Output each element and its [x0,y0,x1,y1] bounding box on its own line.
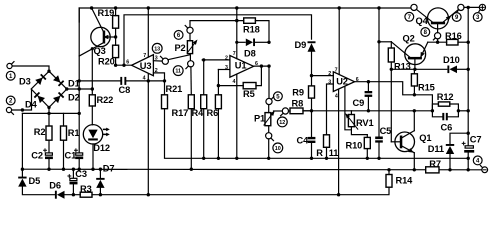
svg-text:2: 2 [225,55,228,61]
svg-text:Q3: Q3 [94,46,106,56]
capacitor C2 [31,149,53,171]
resistor R5 [218,64,263,99]
capacitor C4 [297,111,316,160]
diode D6 [49,181,64,199]
wire U1 output [254,64,271,67]
wire bridge diamond [31,70,68,110]
svg-text:C6: C6 [441,122,453,132]
svg-text:P1: P1 [254,113,265,123]
svg-text:C1: C1 [65,150,77,160]
resistor R13 [388,42,410,142]
wire U2 output [355,80,417,97]
wire terminal2 to bridge left [12,89,32,112]
node terminal 11 [173,55,193,76]
op-amp U3 [126,53,158,81]
trimmer RV1 [344,111,374,135]
diode D5 [18,168,40,187]
svg-text:2: 2 [328,71,331,77]
capacitor C1 [65,149,84,161]
wire U1 minus input [218,69,230,71]
capacitor C7 [462,134,481,152]
svg-text:R5: R5 [243,89,255,99]
svg-text:D12: D12 [93,143,110,153]
svg-text:R12: R12 [437,92,454,102]
wire emitter node row [391,68,447,70]
svg-text:R20: R20 [98,57,115,67]
wire Q1 collector up to node row [413,111,415,131]
resistor R12 [432,92,458,111]
svg-text:Q4: Q4 [416,16,429,26]
capacitor C6 [432,109,460,132]
svg-text:R6: R6 [207,108,219,118]
svg-text:D3: D3 [19,76,31,86]
diode D7 [96,164,114,197]
wire terminal1 to bridge top [12,66,49,71]
resistor R8 [289,98,313,113]
wire Q2 emitter to R16 [428,41,447,44]
resistor R22 [89,47,113,125]
svg-text:U2: U2 [336,76,348,86]
node terminal 9 [452,4,464,21]
node terminal 7 [405,4,417,21]
wire R12 right node to bus [458,110,468,112]
diode D10 [443,55,468,73]
svg-text:C7: C7 [470,134,482,144]
resistor R14 [386,168,413,187]
svg-text:R: R [316,148,323,158]
wire bottom rail [22,113,389,194]
svg-text:RV1: RV1 [356,118,373,128]
svg-text:Q2: Q2 [403,33,415,43]
wire right vertical bus [467,7,470,171]
wire U2 pin4 down to bottom rail [337,89,340,196]
resistor R7 [426,159,441,173]
wire terminal9 to plus output [464,6,479,9]
wire rail A top [79,8,411,22]
svg-text:R9: R9 [292,87,304,97]
transistor Q1 [391,131,431,155]
terminal 2 [6,96,15,114]
wire U2 V+ supply drop [338,6,341,74]
wire U1 plus input [202,59,230,61]
resistor R20 [98,45,119,67]
svg-text:R2: R2 [34,127,46,137]
wire supply drop from rail A to U3 pin7 [147,6,150,82]
svg-text:13: 13 [154,46,160,52]
svg-text:7: 7 [233,51,236,57]
wire Q2 base feed [379,41,391,43]
diode D9 [295,40,316,77]
op-amp U2 [328,67,359,99]
svg-text:Q1: Q1 [419,133,431,143]
svg-text:R1: R1 [68,128,80,138]
LED D12 [83,125,110,171]
potentiometer P2 [175,38,200,53]
resistor R2 [34,126,52,153]
svg-text:C2: C2 [31,150,43,160]
diode D2 [53,92,64,103]
node terminal 6 [174,26,193,41]
svg-text:4: 4 [233,79,236,85]
wire U2 pin1 bracket to RV1 wiper [345,86,352,130]
diode D8 [237,39,271,59]
svg-text:7: 7 [143,53,146,59]
capacitor C5 [375,6,391,160]
svg-text:P2: P2 [175,43,186,53]
diode D3 [35,74,46,85]
wire left vertical from rail A down through C1 to ground rail 2 [78,8,81,171]
svg-text:4: 4 [335,93,338,99]
svg-text:3: 3 [225,65,228,71]
op-amp U1 [225,51,258,85]
svg-text:D8: D8 [244,49,256,59]
wire U3 pin3 input to terminal circle [153,60,162,62]
svg-text:R17: R17 [172,108,189,118]
svg-text:R19: R19 [98,8,115,18]
resistor R16 [445,31,470,45]
wire rail B second top [124,15,312,65]
node terminal 4 minus [473,156,487,173]
svg-text:C5: C5 [380,126,392,136]
svg-text:C3: C3 [75,169,87,179]
svg-text:R7: R7 [429,159,441,169]
svg-text:10: 10 [275,146,281,152]
wire U3 pin2 input from R21 node [153,73,164,81]
diode D1 [53,75,64,86]
resistor R19 [98,6,119,45]
svg-text:D10: D10 [443,55,460,65]
svg-text:D11: D11 [428,144,444,154]
diode D4 [34,92,45,103]
transistor Q4 [416,8,459,33]
svg-text:D9: D9 [295,40,307,50]
resistor R9 [292,76,314,113]
wire U2 minus input to R11 [327,84,334,135]
wire node under bridge [22,112,81,115]
svg-text:D5: D5 [29,176,41,186]
resistor R11 [316,135,338,160]
node terminal 5 [266,66,282,105]
transistor Q3 [79,6,115,56]
svg-text:R4: R4 [192,108,205,118]
capacitor C8 [79,77,164,95]
resistor R17 [172,67,195,171]
svg-text:R10: R10 [346,140,363,150]
svg-text:7: 7 [335,67,338,73]
svg-text:R14: R14 [396,175,414,185]
svg-text:D2: D2 [68,92,80,102]
resistor R4 [192,58,207,160]
potentiometer P1 [254,105,276,126]
svg-text:C8: C8 [119,85,131,95]
svg-text:R16: R16 [445,31,462,41]
wire R20 junction to U3 output [116,63,132,66]
capacitor C3 [68,168,87,197]
terminal 1 [6,62,15,81]
resistor R18 [243,18,269,42]
resistor R15 [411,69,434,95]
svg-text:D6: D6 [49,181,61,191]
wire U2 output to R12 node [414,95,432,111]
diode D11 [428,133,468,171]
resistor R10 [346,135,371,160]
svg-text:U1: U1 [235,61,247,71]
svg-text:D4: D4 [25,99,38,109]
resistor R3 [80,184,92,197]
transistor Q2 [391,33,428,71]
svg-text:R3: R3 [80,184,92,194]
svg-text:11: 11 [175,69,181,75]
node terminal 8 [421,28,441,43]
wire main horizontal node R8 to R12 [303,109,434,112]
node terminal 3 plus [473,4,485,21]
wire bridge right vertex to R22 line [67,87,94,90]
node terminal 10 [266,126,283,153]
svg-text:12: 12 [279,120,285,126]
wire ground rail 1 [165,109,469,159]
svg-text:R8: R8 [292,98,304,108]
resistor R6 [207,70,222,161]
svg-text:R15: R15 [418,82,435,92]
svg-text:D7: D7 [103,164,115,174]
svg-text:R22: R22 [97,95,114,105]
wire terminal 13 to P2 bottom [168,54,190,60]
wire ground rail 2 [22,168,481,171]
wire terminal10 to ground rail 1 [267,139,270,160]
node terminal 12 wiper [274,108,289,127]
svg-text:U3: U3 [140,61,152,71]
wire U3 pin4 down to bottom rail [147,74,150,197]
svg-text:C4: C4 [297,136,310,146]
wire U1 V+ supply drop [235,6,238,58]
svg-text:11: 11 [329,148,339,158]
wire terminal6 circle up to R18 feed [190,19,244,27]
node terminal 13 [152,43,168,64]
svg-text:R21: R21 [166,84,183,94]
wire Q1 emitter down to ground rail 2 [413,153,416,172]
resistor R1 [61,113,80,170]
resistor R21 [162,79,183,109]
capacitor C9 [353,82,373,113]
wire bridge bottom to R2 [47,107,50,126]
svg-text:R18: R18 [243,25,260,35]
svg-text:6: 6 [126,60,129,66]
wire U1 pin4 down to ground rail 1 [235,74,238,160]
svg-text:C9: C9 [353,98,365,108]
wire U2 plus input [312,75,334,77]
